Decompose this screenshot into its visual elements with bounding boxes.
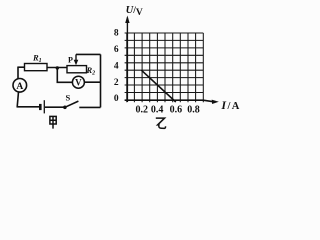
slider P arrow <box>75 54 77 60</box>
svg-text:6: 6 <box>114 45 119 55</box>
battery positive long plate <box>43 100 45 113</box>
wire junction down to voltmeter <box>57 68 72 82</box>
svg-text:S: S <box>66 92 71 102</box>
wire right vertical <box>100 54 102 107</box>
wire R1 to R2 <box>47 67 67 69</box>
junction node (V tap) <box>56 66 59 69</box>
svg-text:0: 0 <box>114 94 119 104</box>
svg-text:0.6: 0.6 <box>170 105 183 116</box>
svg-text:4: 4 <box>114 62 119 72</box>
svg-text:2: 2 <box>114 78 119 88</box>
label 乙 (drawn glyph) <box>156 118 166 128</box>
svg-text:R1: R1 <box>32 53 42 65</box>
svg-text:0.4: 0.4 <box>151 105 164 116</box>
wire battery to switch <box>45 106 65 108</box>
grid of graph <box>125 33 204 102</box>
U-I characteristic line <box>141 70 175 102</box>
x tick labels 0.2 0.4 0.6 0.8 <box>135 105 199 116</box>
y-axis U <box>126 18 128 103</box>
battery negative short plate <box>39 104 42 110</box>
svg-text:0.2: 0.2 <box>135 105 148 116</box>
svg-text:I/A: I/A <box>220 98 240 112</box>
svg-text:V: V <box>75 78 82 88</box>
switch S pivot and lever <box>63 106 67 110</box>
voltmeter V <box>72 76 84 88</box>
wire bottom-left to battery <box>17 106 40 108</box>
x-axis I <box>125 100 213 102</box>
svg-text:0.8: 0.8 <box>187 105 200 116</box>
y tick labels 8 6 4 2 0 <box>114 29 119 105</box>
wire left vertical upper <box>17 67 19 79</box>
wire voltmeter to right wire <box>84 81 100 83</box>
svg-text:R2: R2 <box>86 65 96 77</box>
wire slider to top-right corner <box>76 53 101 55</box>
wire switch to bottom-right corner <box>79 106 100 108</box>
ammeter A <box>13 79 27 93</box>
wire top-left horizontal to R1 <box>18 66 25 68</box>
resistor R1 <box>25 64 48 71</box>
wire left vertical lower <box>17 92 18 107</box>
svg-text:U/V: U/V <box>126 5 143 18</box>
svg-text:P: P <box>68 56 73 65</box>
svg-text:8: 8 <box>114 29 119 39</box>
svg-text:A: A <box>16 82 23 92</box>
rheostat R2 <box>67 66 87 73</box>
label 甲 (drawn glyph) <box>50 116 56 128</box>
